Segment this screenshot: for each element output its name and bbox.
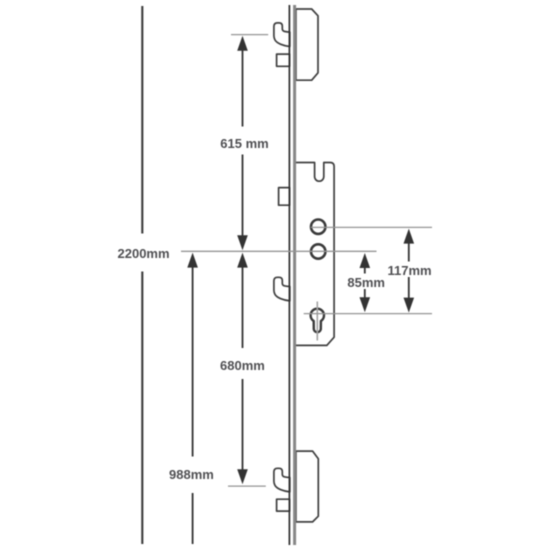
middle latch tab [279,188,290,206]
dimension 117mm line + arrows [408,236,410,262]
faceplate strip dark edge [288,5,290,545]
dimension 85mm line + arrows [364,260,366,274]
svg-text:85mm: 85mm [347,275,385,290]
middle hook bolt [274,277,290,301]
bottom roller cam tab [277,499,290,511]
svg-text:117mm: 117mm [388,263,432,278]
svg-text:615 mm: 615 mm [220,136,268,151]
reference line top (615 tick) [231,34,268,36]
top gearbox body [296,9,318,80]
top roller cam tab [277,54,290,66]
reference line bottom (988 tick) [228,485,266,487]
spindle hole upper [311,220,325,234]
cylinder vertical centreline [316,302,318,341]
spindle hole lower [311,244,325,258]
dimension 680mm line + arrows [242,260,244,349]
svg-text:680mm: 680mm [220,358,265,373]
euro cylinder keyhole [311,309,324,333]
bottom hook bolt [274,468,290,492]
svg-text:2200mm: 2200mm [118,246,170,261]
svg-text:988mm: 988mm [169,467,214,482]
faceplate strip grey edge [293,5,296,545]
dimension 615mm line + arrows [242,43,244,127]
bottom gearbox body [296,451,318,522]
reference line 2200 / lower spindle [181,250,377,252]
top hook bolt [274,23,290,47]
reference line cylinder [304,313,432,315]
reference line upper spindle [311,226,432,228]
dimension 2200mm vertical line [141,6,143,234]
dimension 988mm line + arrow [192,260,194,457]
lock case plate (centre gearbox backplate) [295,163,335,346]
